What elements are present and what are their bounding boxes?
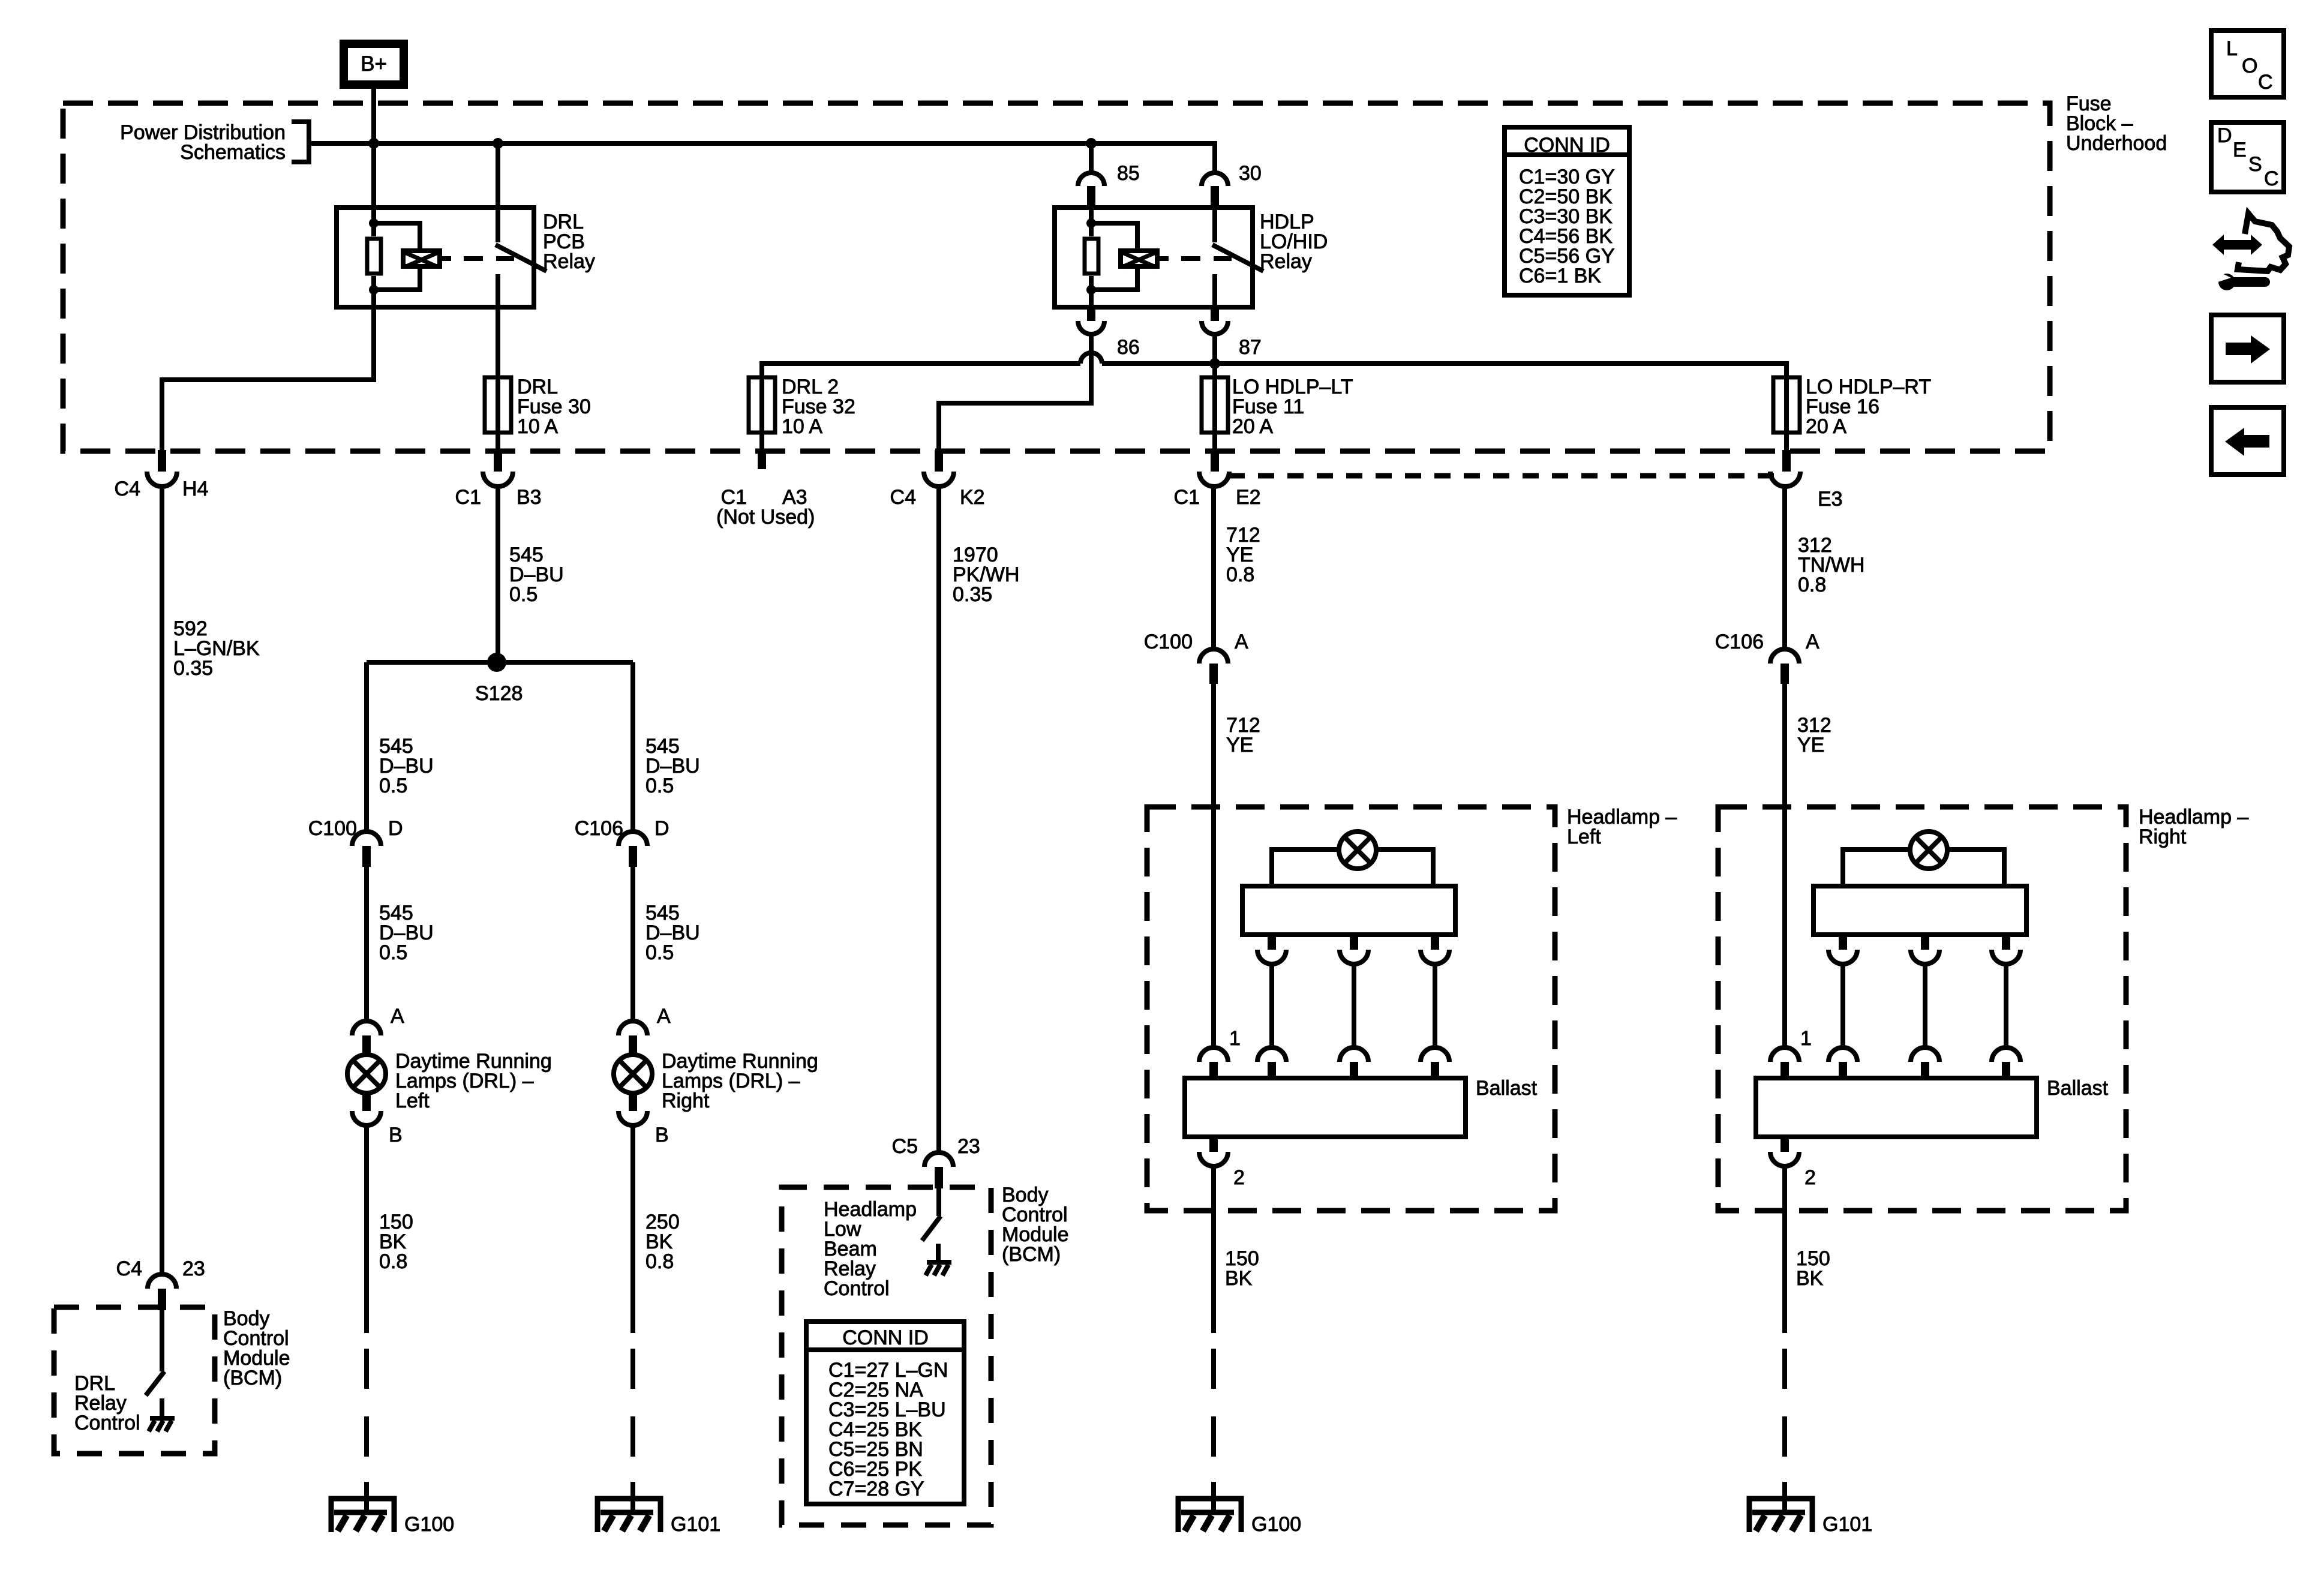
svg-text:K2: K2 [960,486,985,509]
igniter-ballast jumper wire 3 right [2004,964,2008,1047]
label wire 312 YE lower [1797,714,1831,757]
svg-text:Right: Right [2139,825,2187,848]
wire 712 YE fuse 11 to C100 A [1211,487,1216,649]
ground G101 (right DRL lamp) [597,1482,720,1536]
headlamp left dashed enclosure [1147,807,1555,1211]
bulb HID left headlamp [1339,831,1376,869]
ballast input connector 1 left [1257,1047,1286,1078]
connector C100 pin A [1144,631,1248,684]
ballast input connector 2 left [1340,1047,1368,1078]
svg-text:D: D [388,817,403,840]
svg-text:1: 1 [1800,1027,1812,1050]
svg-text:0.5: 0.5 [645,941,674,964]
icon wrench [2212,269,2265,290]
svg-text:Ballast: Ballast [1476,1077,1538,1100]
label wire 592 L-GN/BK 0.35 [173,617,260,680]
svg-text:BK: BK [1796,1267,1824,1290]
svg-text:Ballast: Ballast [2047,1077,2109,1100]
DRL relay coil upper node [369,218,379,228]
svg-text:(BCM): (BCM) [223,1367,282,1389]
svg-text:A: A [391,1005,404,1028]
lamp E-DRL-right (Daytime Running Lamp Right) [614,1055,652,1093]
connector C100 pin D [308,817,403,867]
ballast pin 2 connector left [1199,1137,1245,1189]
dashed ground lead right headlamp [1782,1349,1787,1457]
dashed ground lead left headlamp [1211,1349,1216,1457]
CONN ID table (BCM) [806,1322,964,1504]
svg-text:C100: C100 [308,817,357,840]
svg-text:C4: C4 [116,1257,142,1280]
label wire 545 D-BU 0.5 left branch [379,735,434,797]
label wire 545 D-BU 0.5 to left lamp [379,902,434,964]
svg-text:Underhood: Underhood [2066,132,2167,155]
svg-text:0.5: 0.5 [645,775,674,797]
label DRL PCB Relay [543,211,595,273]
connector C5 pin 23 [892,1135,980,1188]
svg-text:2: 2 [1233,1166,1245,1189]
igniter module box right headlamp [1813,886,2026,935]
igniter output connector 2 right [1911,935,1939,964]
connector C1 pin A3 (not used) [716,450,815,529]
svg-text:C1: C1 [1174,486,1200,509]
label HDLP LO/HID Relay [1260,211,1328,273]
wire DRL relay coil to connector H4 [162,307,374,450]
DRL relay switch arm [496,245,547,271]
BCM low beam relay control switch [922,1188,941,1260]
HDLP relay actuating linkage (dashed) [1160,256,1232,261]
svg-text:1: 1 [1229,1027,1241,1050]
junction node pin 87 at bus [1209,358,1220,369]
junction node at B+ column [368,138,379,149]
svg-text:E: E [2233,139,2247,161]
connector pin B left DRL lamp [352,1094,403,1146]
label Fuse Block - Underhood [2066,92,2167,155]
fuse block - underhood dashed enclosure [63,103,2050,451]
svg-text:Relay: Relay [1260,250,1312,273]
DRL relay coil lower node [369,285,379,295]
wire B+ feed down to fuse block [371,89,376,145]
svg-text:20 A: 20 A [1806,415,1846,438]
HDLP relay coil upper node [1086,218,1096,228]
svg-text:C7=28 GY: C7=28 GY [828,1478,924,1500]
label wire 150 BK right headlamp [1796,1247,1830,1290]
svg-text:G101: G101 [1822,1513,1872,1536]
icon service vehicle silhouette [2238,214,2289,271]
headlamp right dashed enclosure [1718,807,2126,1211]
dashed ground lead left DRL lamp [364,1349,369,1457]
svg-text:B3: B3 [517,486,542,509]
wire hop over pin 86 lead [1080,353,1102,364]
svg-text:C100: C100 [1144,631,1193,653]
HDLP relay coil winding symbol [1091,223,1157,290]
label wire 545 D-BU 0.5 to right lamp [645,902,700,964]
svg-text:C: C [2264,167,2279,190]
igniter module box left headlamp [1242,886,1455,935]
svg-text:(Not Used): (Not Used) [716,506,815,529]
svg-text:G101: G101 [671,1513,720,1536]
wire 150 BK left headlamp to ground [1211,1166,1216,1333]
svg-text:S128: S128 [475,682,523,705]
BCM DRL relay control switch [146,1310,164,1416]
lamp E-DRL-left (Daytime Running Lamp Left) [347,1055,386,1093]
label wire 545 D-BU 0.5 [509,544,564,606]
label Body Control Module (BCM) left [223,1307,290,1389]
wire 592 L-GN/BK to BCM [160,487,164,1274]
svg-text:BK: BK [1225,1267,1253,1290]
label wire 312 TN/WH 0.8 [1798,534,1864,596]
svg-text:A: A [657,1005,671,1028]
icon DESC box [2211,122,2284,192]
svg-text:E3: E3 [1818,488,1843,511]
wire 312 TN/WH fuse 16 to C106 A [1782,487,1787,649]
svg-text:C6=1 BK: C6=1 BK [1519,265,1601,287]
wire 150 BK right headlamp to ground [1782,1166,1787,1333]
junction node at DRL relay switch feed [493,138,503,149]
label wire 545 D-BU 0.5 right branch [645,735,700,797]
svg-text:0.35: 0.35 [953,583,992,606]
ground G100 (left DRL lamp) [331,1482,454,1536]
label Headlamp Right [2139,806,2248,848]
igniter-ballast jumper wire 1 right [1840,964,1845,1047]
svg-text:23: 23 [182,1257,205,1280]
wire C100 D to left DRL lamp [364,867,369,1021]
wire pin 87 to fuses bus [762,334,1786,377]
svg-text:G100: G100 [1251,1513,1301,1536]
svg-text:0.5: 0.5 [379,941,407,964]
igniter-ballast jumper wire 3 left [1433,964,1437,1047]
svg-text:10 A: 10 A [517,415,558,438]
ballast box left headlamp [1185,1078,1466,1137]
svg-text:L: L [2226,37,2238,60]
connector pin B right DRL lamp [618,1094,669,1146]
svg-text:Left: Left [1567,825,1601,848]
ballast input connector 1 right [1828,1047,1857,1078]
svg-text:E2: E2 [1236,486,1261,509]
DRL relay switch contacts [496,208,500,307]
svg-text:0.5: 0.5 [509,583,538,606]
wire 1970 PK/WH to BCM [936,487,941,1152]
dashed ground lead right DRL lamp [630,1349,635,1457]
svg-text:C: C [2258,71,2273,94]
svg-text:0.8: 0.8 [379,1250,407,1273]
CONN ID table (fuse block) [1505,127,1629,295]
wire 545 D-BU fuse 30 to splice [496,487,500,662]
connector C106 pin A [1715,631,1819,684]
BCM DRL relay control dashed box [54,1307,215,1454]
relay K-DRL box (DRL PCB Relay) [337,208,534,307]
HDLP relay pin 87 connector [1202,307,1228,334]
wire pin 86 to BCM relay control [939,334,1091,450]
svg-text:23: 23 [957,1135,980,1158]
wire 150 BK left DRL lamp to ground [364,1125,369,1333]
svg-text:85: 85 [1117,162,1140,185]
svg-text:Control: Control [824,1277,890,1300]
svg-text:CONN ID: CONN ID [842,1326,929,1349]
svg-text:C106: C106 [575,817,623,840]
DRL relay actuating linkage (dashed) [442,256,514,261]
wire splice to connector C106 D [630,662,635,831]
svg-text:Control: Control [74,1412,140,1434]
svg-text:Schematics: Schematics [180,141,286,164]
DRL relay coil resistor [367,208,381,307]
svg-text:20 A: 20 A [1232,415,1273,438]
ballast pin 2 connector right [1770,1137,1816,1189]
svg-text:O: O [2242,55,2257,77]
BCM internal ground (DRL control) [149,1418,175,1431]
label wire 1970 PK/WH 0.35 [953,544,1019,606]
battery positive terminal B+ [344,44,404,85]
ballast input connector 3 right [1992,1047,2020,1078]
label wire 712 YE 0.8 [1226,524,1260,586]
ground G100 (left headlamp) [1178,1482,1301,1536]
igniter output connector 1 right [1828,935,1857,964]
connector pin A right DRL lamp [618,1005,671,1054]
label Body Control Module (BCM) right [1002,1184,1069,1266]
HDLP relay pin 30 connector [1202,173,1228,208]
svg-text:0.8: 0.8 [645,1250,674,1273]
power feed bus wire [309,143,1215,173]
icon forward arrow box [2211,315,2284,382]
connector C1 pin B3 [455,450,542,509]
svg-text:H4: H4 [182,478,208,500]
fuse F30 (DRL Fuse 30 10A) [485,307,511,451]
wire 250 BK right DRL lamp to ground [630,1125,635,1333]
wire bus to DRL relay switch [496,143,500,208]
BCM headlamp low beam relay control dashed box [782,1187,991,1525]
relay K-HDLP box (HDLP LO/HID Relay) [1055,208,1253,307]
HDLP relay coil resistor [1085,208,1098,307]
igniter output connector 3 right [1992,935,2020,964]
svg-text:B: B [655,1124,669,1146]
label DRL 2 Fuse 32 10 A [782,376,855,438]
bulb leads left headlamp [1272,849,1433,886]
svg-text:D: D [2217,124,2232,147]
connector C1 pin E2 [1174,450,1261,509]
igniter-ballast jumper wire 2 right [1923,964,1927,1047]
svg-text:0.8: 0.8 [1798,574,1826,596]
svg-text:86: 86 [1117,336,1140,359]
wire 312 YE to right headlamp [1782,684,1787,1047]
connector C4 pin 23 [116,1257,205,1310]
svg-text:30: 30 [1239,162,1262,185]
ballast input connector 3 left [1421,1047,1449,1078]
HDLP relay switch contacts [1212,208,1217,307]
ballast pin 1 connector left [1199,1027,1241,1078]
BCM internal ground (low beam control) [926,1262,951,1275]
svg-text:B: B [389,1124,403,1146]
HDLP relay switch arm [1212,245,1263,271]
label LO HDLP-LT Fuse 11 20 A [1232,376,1353,438]
junction node at HDLP relay coil feed [1086,138,1097,149]
svg-text:(BCM): (BCM) [1002,1243,1061,1266]
label Daytime Running Lamps (DRL) Right [662,1050,818,1112]
svg-text:87: 87 [1239,336,1262,359]
connector pin E3 [1770,450,1843,511]
svg-text:D: D [654,817,669,840]
svg-text:Relay: Relay [543,250,595,273]
svg-text:S: S [2248,153,2262,176]
fuse F11 (LO HDLP-LT Fuse 11 20A) [1202,377,1228,451]
label wire 150 BK left headlamp [1225,1247,1259,1290]
svg-text:0.5: 0.5 [379,775,407,797]
wire bus to DRL relay coil [371,143,376,208]
svg-text:0.35: 0.35 [173,657,213,680]
label wire 712 YE lower [1226,714,1260,757]
HDLP relay pin 85 connector [1078,143,1104,208]
connector C106 pin D [575,817,669,867]
svg-text:10 A: 10 A [782,415,822,438]
svg-text:A: A [1806,631,1819,653]
label DRL Relay Control [74,1372,140,1434]
splice S128 [367,653,633,705]
bulb leads right headlamp [1843,849,2004,886]
svg-text:CONN ID: CONN ID [1524,134,1610,157]
connector pin A left DRL lamp [352,1005,404,1054]
wire C106 D to right DRL lamp [630,867,635,1021]
igniter-ballast jumper wire 2 left [1352,964,1356,1047]
DRL relay coil winding symbol [374,223,440,290]
label LO HDLP-RT Fuse 16 20 A [1806,376,1931,438]
ballast input connector 2 right [1911,1047,1939,1078]
svg-text:C1: C1 [455,486,481,509]
svg-text:Right: Right [662,1089,710,1112]
label wire 250 BK 0.8 right [645,1211,680,1273]
label DRL Fuse 30 10 A [517,376,591,438]
svg-text:B+: B+ [361,52,387,76]
svg-text:C106: C106 [1715,631,1764,653]
ballast pin 1 connector right [1770,1027,1812,1078]
bulb HID right headlamp [1910,831,1947,869]
icon LOC box [2211,31,2284,97]
in-line connector dotted tie E2 to E3 [1229,473,1780,479]
svg-text:Left: Left [395,1089,430,1112]
label Headlamp Low Beam Relay Control [824,1198,917,1300]
label Daytime Running Lamps (DRL) Left [395,1050,552,1112]
connector C4 pin K2 [890,450,985,509]
HDLP relay coil lower node [1086,285,1096,295]
svg-text:C5: C5 [892,1135,918,1158]
icon back arrow box [2211,407,2284,475]
ground G101 (right headlamp) [1749,1482,1872,1536]
fuse F32 (DRL 2 Fuse 32 10A) [749,364,775,451]
connector C4 pin H4 [115,450,209,500]
igniter-ballast jumper wire 1 left [1269,964,1274,1047]
ballast box right headlamp [1756,1078,2037,1137]
svg-text:A: A [1235,631,1248,653]
svg-text:C4: C4 [890,486,916,509]
icon double arrow [2212,235,2262,255]
svg-text:G100: G100 [404,1513,454,1536]
wire splice to connector C100 D [364,662,369,831]
label wire 150 BK 0.8 left [379,1211,413,1273]
igniter output connector 2 left [1340,935,1368,964]
power distribution schematics reference tag [120,121,309,164]
svg-text:0.8: 0.8 [1226,563,1254,586]
svg-text:2: 2 [1804,1166,1816,1189]
label Headlamp Left [1567,806,1677,848]
svg-text:YE: YE [1797,734,1824,757]
wire 712 YE to left headlamp [1211,684,1216,1047]
igniter output connector 3 left [1421,935,1449,964]
svg-text:C4: C4 [115,478,140,500]
igniter output connector 1 left [1257,935,1286,964]
svg-text:YE: YE [1226,734,1253,757]
HDLP relay pin 86 connector [1078,307,1104,334]
fuse F16 (LO HDLP-RT Fuse 16 20A) [1773,364,1800,451]
